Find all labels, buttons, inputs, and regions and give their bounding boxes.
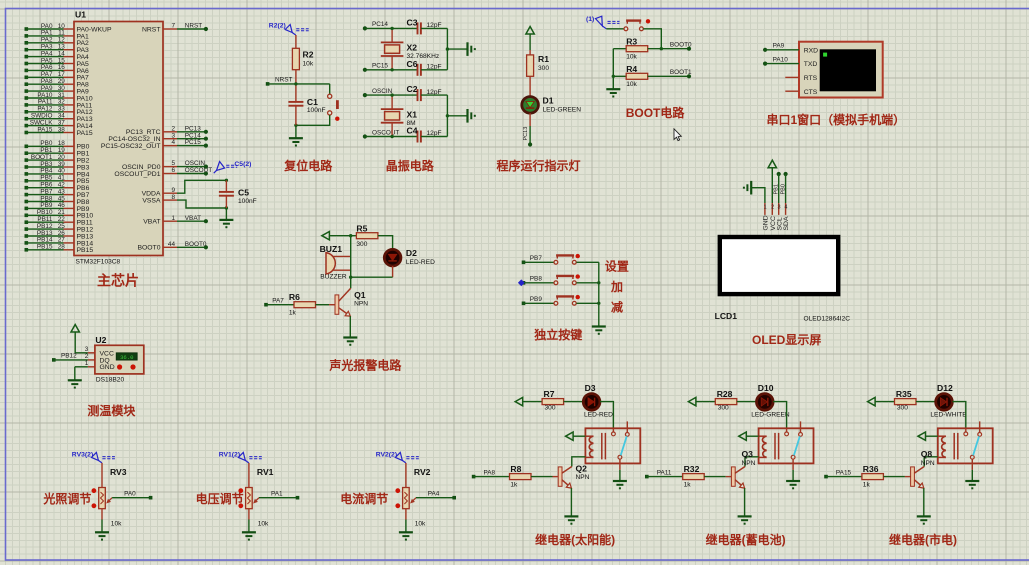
svg-text:RV1: RV1	[257, 467, 274, 477]
wire OSCIN	[177, 166, 206, 168]
terminal PA11	[25, 103, 29, 107]
power terminal	[739, 432, 747, 440]
svg-text:VBAT: VBAT	[185, 215, 201, 222]
pin stub 39	[64, 166, 75, 168]
terminal PC15	[363, 68, 367, 72]
ground	[564, 516, 578, 523]
svg-text:PA15: PA15	[836, 469, 852, 476]
pin stub 26	[64, 235, 75, 237]
svg-text:测温模块: 测温模块	[87, 403, 136, 418]
svg-text:R2: R2	[303, 50, 314, 60]
svg-text:36.0: 36.0	[120, 354, 134, 361]
wire PC14	[177, 138, 206, 140]
push button PB8	[554, 274, 580, 284]
junction C5 top	[225, 179, 228, 182]
svg-text:RV2: RV2	[414, 467, 431, 477]
svg-text:LED-GREEN: LED-GREEN	[751, 412, 790, 419]
svg-text:R5: R5	[356, 223, 367, 233]
wire PA4	[26, 56, 63, 58]
svg-text:1k: 1k	[863, 481, 871, 488]
svg-text:10k: 10k	[111, 521, 122, 528]
terminal PA2	[25, 41, 29, 45]
junction	[446, 47, 449, 50]
svg-text:独立按键: 独立按键	[533, 327, 582, 342]
terminal PA15	[824, 475, 828, 479]
wire emitter	[349, 316, 351, 337]
terminal BOOT0	[687, 47, 691, 51]
wire PA10	[26, 97, 63, 99]
wire	[737, 401, 757, 403]
wire PA5	[26, 63, 63, 65]
OLED VCC lead	[771, 203, 773, 215]
wire SWCLK	[26, 125, 63, 127]
power terminal	[566, 432, 574, 440]
ground	[468, 109, 475, 123]
svg-text:300: 300	[545, 405, 556, 412]
svg-text:32.768KHz: 32.768KHz	[407, 53, 440, 60]
svg-text:RV2(2): RV2(2)	[376, 452, 397, 459]
svg-text:10k: 10k	[626, 81, 637, 88]
ground	[242, 532, 256, 539]
RV1 wiper	[253, 498, 259, 504]
D1 bottom lead	[529, 113, 531, 126]
relay Q3	[759, 421, 814, 470]
svg-text:1: 1	[171, 215, 175, 222]
resistor R28	[715, 399, 737, 405]
svg-text:CTS: CTS	[804, 89, 818, 96]
terminal PA4	[452, 496, 456, 500]
wire	[523, 401, 542, 403]
wire PA0	[26, 28, 63, 30]
svg-text:PA8: PA8	[484, 469, 496, 476]
pin stub 25	[64, 228, 75, 230]
RV3 actuator marker	[72, 452, 115, 463]
C1 bottom lead	[295, 106, 297, 126]
terminal PA7	[25, 76, 29, 80]
terminal PB9	[522, 302, 526, 306]
wire PA9	[26, 90, 63, 92]
pin stub 14	[64, 56, 75, 58]
svg-text:声光报警电路: 声光报警电路	[328, 357, 402, 372]
ground	[95, 532, 109, 539]
pin stub 13	[64, 49, 75, 51]
wire PC13	[177, 131, 206, 133]
pin stub 31	[64, 97, 75, 99]
wire	[446, 28, 448, 69]
svg-text:28: 28	[58, 244, 66, 251]
potentiometer RV1	[246, 488, 253, 509]
wire	[573, 435, 585, 437]
svg-text:VSSA: VSSA	[142, 197, 161, 204]
svg-text:C3: C3	[407, 17, 418, 27]
svg-text:NPN: NPN	[354, 300, 368, 307]
svg-text:OSCIN: OSCIN	[372, 88, 393, 95]
push button PB9	[554, 295, 580, 305]
resistor R7	[542, 399, 564, 405]
wire GND	[75, 366, 88, 368]
wire PC15	[177, 145, 206, 147]
wire PA10	[765, 63, 799, 65]
wire PB3	[26, 166, 63, 168]
svg-text:LCD1: LCD1	[715, 311, 738, 321]
terminal PA1	[296, 496, 300, 500]
wire	[350, 236, 352, 278]
pin stub 1	[163, 220, 177, 222]
wire emitter	[570, 488, 572, 516]
pin stub 9	[163, 192, 177, 194]
terminal PA6	[25, 69, 29, 73]
OLED display LCD1	[718, 235, 841, 296]
terminal PA1	[25, 34, 29, 38]
wire PB8	[26, 201, 63, 203]
svg-text:Q1: Q1	[354, 290, 366, 300]
wire	[316, 304, 330, 306]
terminal PB6	[25, 186, 29, 190]
U2 pin 2	[88, 359, 95, 361]
svg-text:PB1: PB1	[774, 184, 780, 194]
svg-text:OSCOUT_PD1: OSCOUT_PD1	[114, 171, 160, 178]
RV2 wiper	[410, 498, 416, 504]
svg-text:继电器(市电): 继电器(市电)	[889, 532, 957, 547]
svg-text:Q2: Q2	[576, 464, 588, 474]
wire PA6	[26, 69, 63, 71]
CTS stub	[785, 90, 799, 92]
wire emitter	[744, 488, 746, 516]
wire SDA	[785, 174, 787, 203]
terminal PA8	[472, 475, 476, 479]
svg-text:D12: D12	[937, 383, 953, 393]
svg-text:BUZZER: BUZZER	[320, 273, 347, 280]
wire	[529, 34, 531, 50]
svg-text:GND: GND	[763, 215, 770, 230]
svg-text:R28: R28	[717, 389, 733, 399]
BUZ1 pin 1	[333, 255, 351, 257]
wire coil to collector	[572, 457, 586, 467]
svg-text:RV3(2): RV3(2)	[72, 452, 93, 459]
wire PA15	[826, 476, 862, 478]
serial port window (virtual terminal)	[799, 42, 883, 98]
terminal PB14	[25, 241, 29, 245]
pin stub 17	[64, 76, 75, 78]
terminal SWDIO	[25, 117, 29, 121]
Q3 base lead	[726, 476, 732, 478]
wire BOOT1	[26, 159, 63, 161]
wire VSSA to C5	[177, 200, 226, 208]
svg-text:4: 4	[171, 139, 175, 146]
wire VDDA to C5	[177, 180, 226, 193]
wire PA7	[26, 76, 63, 78]
svg-text:OLED12864I2C: OLED12864I2C	[804, 316, 851, 323]
terminal PB3	[25, 165, 29, 169]
terminal PB4	[25, 172, 29, 176]
svg-text:减: 减	[611, 300, 623, 315]
wire	[916, 401, 936, 403]
terminal PC14	[204, 137, 208, 141]
relay switch blade Q8	[973, 436, 979, 455]
terminal PB7	[522, 261, 526, 265]
svg-text:PA10: PA10	[773, 56, 789, 63]
svg-text:6: 6	[171, 167, 175, 174]
wire PB15	[26, 249, 63, 251]
svg-text:Q8: Q8	[921, 449, 933, 459]
terminal PB1	[777, 172, 781, 176]
svg-text:D10: D10	[758, 383, 774, 393]
mcu U1 STM32F103C8	[74, 22, 163, 256]
svg-text:PB15: PB15	[77, 247, 94, 254]
terminal PB10	[25, 214, 29, 218]
RV1 bottom lead	[248, 509, 250, 520]
pin stub 33	[64, 111, 75, 113]
wire emitter	[923, 488, 925, 516]
wire PB13	[26, 235, 63, 237]
wire	[365, 69, 418, 71]
terminal BOOT1	[687, 74, 691, 78]
svg-text:BOOT0: BOOT0	[670, 41, 692, 48]
resistor R35	[895, 399, 917, 405]
wire BOOT1	[648, 75, 689, 77]
terminal PA10	[763, 62, 767, 66]
wire PB5	[26, 180, 63, 182]
svg-text:PC15: PC15	[185, 139, 201, 146]
capacitor C5	[219, 192, 234, 196]
C5 actuator marker	[214, 161, 252, 173]
pin stub 30	[64, 90, 75, 92]
wire PB1	[26, 152, 63, 154]
pin stub 43	[64, 194, 75, 196]
pin stub 21	[64, 214, 75, 216]
terminal NRST	[266, 82, 270, 86]
svg-text:R36: R36	[863, 464, 879, 474]
svg-text:R2(2): R2(2)	[269, 23, 286, 30]
junction	[390, 135, 393, 138]
wire	[101, 520, 103, 533]
terminal PB0	[784, 172, 788, 176]
push button reset	[328, 94, 340, 121]
wire PB12	[54, 359, 88, 361]
wire BOOT0	[177, 246, 206, 248]
wire BOOT0	[648, 48, 689, 50]
terminal PA12	[25, 110, 29, 114]
svg-text:继电器(太阳能): 继电器(太阳能)	[535, 532, 615, 547]
pin stub 28	[64, 249, 75, 251]
pin stub 44	[163, 246, 177, 248]
wire PA9	[765, 49, 799, 51]
wire	[248, 520, 250, 533]
ground	[606, 89, 620, 96]
temperature module U2 DS18B20	[95, 345, 144, 374]
ground	[965, 481, 979, 488]
resistor R3	[626, 46, 648, 52]
wire common rail	[598, 262, 600, 326]
pin stub 7	[163, 28, 177, 30]
svg-text:2: 2	[771, 205, 774, 211]
capacitor C1	[288, 102, 303, 106]
C5 bottom lead	[225, 196, 227, 208]
svg-text:100nF: 100nF	[238, 198, 257, 205]
svg-text:300: 300	[356, 241, 367, 248]
wire	[365, 136, 418, 138]
U2 pin 1	[88, 366, 95, 368]
wire VBAT	[177, 220, 206, 222]
resistor R5	[356, 233, 378, 239]
terminal NRST	[204, 27, 208, 31]
wire	[606, 28, 624, 30]
svg-text:PA15: PA15	[37, 126, 53, 133]
junction	[660, 47, 663, 50]
svg-text:PB12: PB12	[61, 353, 77, 360]
pin stub 34	[64, 118, 75, 120]
X1 top lead	[391, 95, 393, 109]
svg-text:PA11: PA11	[657, 469, 672, 476]
terminal PB0	[25, 145, 29, 149]
svg-text:OSCOUT: OSCOUT	[372, 129, 399, 136]
svg-text:电压调节: 电压调节	[196, 491, 244, 506]
wire	[365, 94, 418, 96]
pin stub 12	[64, 42, 75, 44]
svg-text:D1: D1	[543, 96, 554, 106]
X1 bottom lead	[391, 123, 393, 137]
wire	[524, 302, 554, 304]
svg-text:1k: 1k	[289, 310, 297, 317]
svg-text:晶振电路: 晶振电路	[386, 158, 435, 173]
svg-text:7: 7	[171, 23, 175, 30]
pin stub 32	[64, 104, 75, 106]
svg-text:OLED显示屏: OLED显示屏	[752, 333, 821, 347]
buzzer BUZ1	[326, 253, 335, 274]
LED D3 LED-RED	[583, 394, 600, 411]
ground	[786, 481, 800, 488]
terminal PA0	[25, 27, 29, 31]
pin stub 20	[64, 159, 75, 161]
svg-text:C5: C5	[238, 188, 249, 198]
RV1 actuator marker	[219, 452, 262, 463]
terminal BOOT1	[25, 158, 29, 162]
svg-text:R4: R4	[626, 64, 637, 74]
ground	[68, 380, 82, 387]
svg-text:GND: GND	[100, 364, 115, 371]
wire	[564, 401, 584, 403]
pin stub 10	[64, 28, 75, 30]
R2 actuator marker	[269, 23, 309, 35]
terminal PB12	[25, 227, 29, 231]
wire	[696, 401, 715, 403]
svg-text:PB0: PB0	[780, 184, 786, 194]
terminal PC14	[363, 26, 367, 30]
terminal PA11	[645, 475, 649, 479]
RV2 actuator marker	[376, 452, 419, 463]
capacitor C3	[418, 22, 421, 34]
wire PA2	[26, 42, 63, 44]
svg-text:8M: 8M	[407, 120, 416, 127]
pin stub 27	[64, 242, 75, 244]
pin stub 29	[64, 83, 75, 85]
pin stub 40	[64, 173, 75, 175]
wire	[792, 470, 794, 481]
mouse cursor	[674, 129, 681, 141]
pin stub 22	[64, 221, 75, 223]
junction C5 bottom	[225, 206, 228, 209]
svg-text:PA15: PA15	[77, 130, 93, 137]
resistor R36	[862, 474, 884, 480]
terminal OSCIN	[363, 93, 367, 97]
wire	[421, 136, 447, 138]
svg-text:TXD: TXD	[804, 61, 818, 68]
U2 adjust buttons	[117, 364, 122, 369]
crystal X2	[381, 42, 404, 56]
wire SWDIO	[26, 118, 63, 120]
svg-text:OSCOUT: OSCOUT	[185, 167, 212, 174]
power terminal	[768, 160, 776, 168]
svg-text:BOOT0: BOOT0	[137, 245, 160, 252]
junction	[349, 276, 352, 279]
wire	[447, 48, 467, 50]
OLED GND lead	[764, 203, 766, 215]
svg-text:R35: R35	[896, 389, 912, 399]
capacitor C6	[418, 64, 421, 76]
wire	[613, 75, 626, 77]
svg-text:PB9: PB9	[530, 296, 543, 303]
terminal PA9	[763, 48, 767, 52]
svg-text:LED-RED: LED-RED	[406, 259, 435, 266]
ground	[744, 181, 751, 195]
junction	[446, 114, 449, 117]
terminal PB9	[25, 207, 29, 211]
push button BOOT	[624, 19, 650, 31]
pin stub 6	[163, 173, 177, 175]
svg-text:PB8: PB8	[530, 275, 543, 282]
wire PA11	[647, 476, 683, 478]
junction	[294, 124, 297, 127]
junction	[390, 93, 393, 96]
wire	[619, 470, 621, 481]
wire PA1	[26, 35, 63, 37]
LED D12 LED-WHITE	[936, 394, 953, 411]
svg-text:BOOT0: BOOT0	[185, 241, 207, 248]
svg-text:Q3: Q3	[742, 449, 754, 459]
terminal PA8	[25, 82, 29, 86]
wire PA8	[474, 476, 510, 478]
RV2 adjust dots	[395, 488, 400, 493]
ground	[219, 220, 233, 227]
svg-text:PB15: PB15	[37, 244, 53, 251]
svg-text:10k: 10k	[258, 521, 269, 528]
ground	[468, 42, 475, 56]
svg-text:PC15-OSC32_OUT: PC15-OSC32_OUT	[101, 143, 161, 150]
svg-text:BOOT电路: BOOT电路	[626, 105, 686, 120]
pin stub 19	[64, 152, 75, 154]
RV3 adjust dots	[92, 488, 97, 493]
power terminal	[918, 432, 926, 440]
svg-text:4: 4	[784, 205, 787, 211]
wire	[225, 208, 227, 220]
wire NRST	[268, 83, 330, 85]
svg-text:PA9: PA9	[773, 43, 785, 50]
pin stub 18	[64, 145, 75, 147]
power terminal	[688, 397, 696, 405]
svg-text:RV3: RV3	[110, 467, 127, 477]
svg-text:NPN: NPN	[742, 460, 756, 467]
junction	[612, 75, 615, 78]
relay switch blade Q2	[621, 436, 627, 455]
wire	[446, 95, 448, 136]
svg-text:38: 38	[58, 126, 66, 133]
wire collector	[350, 277, 352, 288]
wire GND	[751, 188, 765, 203]
svg-text:R3: R3	[626, 36, 637, 46]
terminal PB1	[25, 151, 29, 155]
power terminal	[526, 27, 534, 35]
svg-text:10k: 10k	[303, 61, 314, 68]
